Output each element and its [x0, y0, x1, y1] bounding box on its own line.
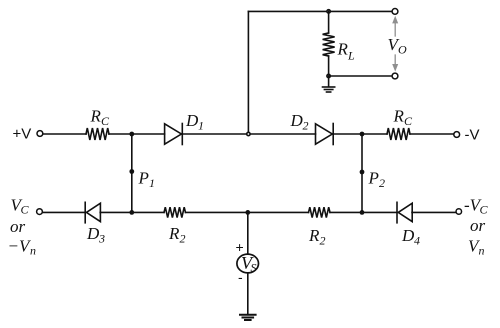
svg-text:C: C: [480, 203, 489, 217]
svg-text:R: R: [168, 224, 180, 243]
label R2 right: [308, 226, 326, 248]
svg-text:C: C: [21, 203, 30, 217]
resistor RC left: [86, 128, 109, 140]
terminal VC: [37, 209, 43, 215]
wire D1 to D2: [182, 133, 315, 135]
wire top rail: [248, 10, 392, 12]
svg-text:C: C: [101, 114, 110, 128]
arrow Vo upper (gray): [392, 16, 398, 36]
wire RL bottom lead: [328, 56, 330, 76]
node lower P1 junction: [129, 210, 134, 215]
arrow Vo lower (gray): [392, 55, 398, 72]
resistor RC right: [387, 128, 410, 140]
label + of Vs: [236, 239, 244, 255]
svg-text:or: or: [470, 216, 486, 235]
terminal -V: [454, 132, 460, 138]
svg-text:n: n: [479, 244, 485, 258]
svg-text:n: n: [30, 244, 36, 258]
label D3: [86, 224, 105, 246]
svg-text:P: P: [138, 169, 149, 188]
terminal -VC: [456, 209, 462, 215]
svg-text:O: O: [398, 43, 407, 57]
label or left: [10, 217, 26, 236]
svg-text:C: C: [404, 114, 413, 128]
node RL bottom junction: [327, 74, 330, 77]
label D1: [185, 111, 204, 133]
wire R2 left to Vs node: [186, 211, 309, 213]
terminal +V: [37, 131, 43, 137]
resistor R2 right: [309, 207, 331, 217]
wire left vertical from top rail to D1 output: [247, 11, 249, 134]
svg-text:R: R: [337, 40, 349, 59]
svg-text:1: 1: [198, 119, 204, 133]
svg-text:3: 3: [98, 232, 105, 246]
resistor RL: [323, 33, 335, 56]
ground bottom: [240, 315, 256, 320]
svg-text:+V: +V: [13, 126, 32, 143]
svg-text:D: D: [401, 226, 415, 245]
svg-text:-V: -V: [465, 127, 480, 144]
source Vs: [237, 253, 259, 275]
label D2: [290, 111, 309, 133]
label RC right: [393, 107, 414, 129]
svg-text:or: or: [10, 217, 26, 236]
node P1 top junction: [129, 132, 134, 137]
node P2 top junction: [360, 132, 365, 137]
svg-text:−V: −V: [8, 237, 32, 256]
svg-text:2: 2: [303, 119, 309, 133]
label - of Vs: [238, 269, 243, 285]
svg-text:2: 2: [379, 176, 385, 190]
svg-text:R: R: [308, 226, 320, 245]
diode D4: [397, 202, 412, 223]
label +V: [13, 126, 32, 143]
label R2 left: [168, 224, 186, 246]
wire bottom output rail: [329, 75, 392, 77]
label P1: [138, 169, 156, 191]
diode D3: [85, 202, 100, 223]
wire D4 to -VC terminal: [412, 211, 456, 213]
wire +V to RC: [43, 133, 86, 135]
wire RC right to -V terminal: [410, 133, 454, 135]
svg-text:S: S: [251, 261, 257, 275]
label Vn right: [468, 237, 485, 258]
svg-text:2: 2: [180, 232, 186, 246]
node junction with top-rail vertical: [247, 132, 250, 135]
diode D2: [316, 124, 334, 145]
svg-text:L: L: [347, 49, 355, 63]
terminal Vo+: [392, 9, 398, 15]
svg-text:R: R: [393, 107, 405, 126]
label D4: [401, 226, 420, 248]
ground below RL: [323, 76, 335, 92]
node top rail / RL junction: [327, 10, 330, 13]
svg-text:1: 1: [149, 176, 155, 190]
svg-text:P: P: [368, 169, 379, 188]
label -V: [465, 127, 480, 144]
wire P2 vertical: [361, 134, 363, 212]
resistor R2 left: [164, 207, 186, 217]
svg-text:2: 2: [320, 234, 326, 248]
svg-text:D: D: [185, 111, 199, 130]
label RL: [337, 40, 356, 63]
wire R2 right to D4: [330, 211, 397, 213]
wire Vs top lead: [247, 212, 249, 254]
node Vs junction: [245, 210, 250, 215]
wire D2 to RC right: [333, 133, 387, 135]
label -VC right: [464, 196, 489, 217]
wire Vs bottom lead: [247, 273, 249, 314]
svg-text:R: R: [90, 107, 102, 126]
label -Vn left: [8, 237, 37, 258]
node lower P2 junction: [360, 210, 365, 215]
terminal Vo-: [392, 73, 398, 79]
label VC left: [11, 196, 30, 217]
label Vo: [388, 35, 408, 57]
node P2: [360, 170, 365, 175]
svg-text:-: -: [238, 269, 243, 285]
label or right: [470, 216, 486, 235]
wire D3 to R2 left: [100, 211, 164, 213]
node P1: [129, 169, 134, 174]
label RC left: [90, 107, 111, 129]
wire VC terminal to D3: [42, 211, 85, 213]
diode D1: [165, 124, 183, 145]
svg-text:4: 4: [414, 234, 420, 248]
svg-text:D: D: [290, 111, 304, 130]
wire RC to node P1 top: [109, 133, 165, 135]
wire P1 vertical: [131, 134, 133, 212]
svg-text:D: D: [86, 224, 100, 243]
label P2: [368, 169, 386, 191]
wire RL top lead: [328, 11, 330, 33]
